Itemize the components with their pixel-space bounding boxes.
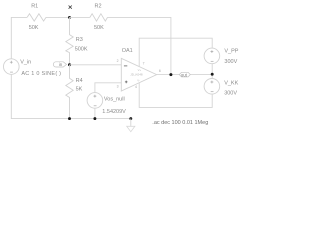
svg-text:50K: 50K [94, 25, 104, 31]
voltage source Vos_null [87, 93, 103, 109]
wire op-amp output to supplies column [157, 74, 213, 76]
svg-text:5K: 5K [76, 86, 83, 92]
svg-text:.ac dec 100 0.01 1Meg: .ac dec 100 0.01 1Meg [152, 120, 208, 126]
voltage source V_in [4, 59, 20, 75]
svg-text:300V: 300V [224, 91, 237, 97]
voltage source V_KK [204, 79, 220, 95]
svg-text:7: 7 [143, 62, 145, 66]
wire R1 to node A [46, 16, 70, 18]
svg-text:V_KK: V_KK [224, 81, 238, 87]
svg-text:300V: 300V [224, 59, 237, 65]
junction output node [169, 73, 172, 76]
wire op-amp V- pin to V_KK bottom [139, 83, 212, 108]
resistor R4 [66, 65, 73, 119]
svg-text:6: 6 [159, 69, 161, 73]
svg-text:Vos_null: Vos_null [104, 96, 125, 102]
svg-text:50K: 50K [29, 25, 39, 31]
junction R4 bottom [68, 117, 71, 120]
svg-text:1.54209V: 1.54209V [102, 109, 126, 115]
wire node A to R2 [70, 16, 90, 18]
wire Vos_null bottom to ground rail [94, 108, 96, 118]
svg-text:R3: R3 [76, 37, 83, 43]
svg-text:R2: R2 [95, 3, 102, 9]
junction Vos_null bottom [93, 117, 96, 120]
wire V_PP bottom to V_KK top [211, 64, 213, 79]
svg-text:3: 3 [117, 85, 119, 89]
voltage source V_PP [204, 48, 220, 64]
svg-text:V+: V+ [138, 68, 142, 72]
svg-text:V_in: V_in [20, 59, 31, 65]
svg-text:in: in [59, 62, 63, 67]
op-amp OA1 [121, 58, 156, 91]
resistor R3 [66, 17, 73, 64]
svg-text:V_PP: V_PP [224, 48, 238, 54]
svg-text:500K: 500K [75, 46, 88, 52]
marker x above node A [69, 6, 72, 9]
svg-text:R4: R4 [76, 78, 83, 84]
junction node A [68, 16, 71, 19]
wire left rail and top-left corner [11, 17, 27, 58]
svg-text:4: 4 [135, 85, 137, 89]
svg-text:JD_K048: JD_K048 [130, 72, 143, 76]
wire op-amp + input to Vos_null top [95, 83, 121, 93]
ground [127, 119, 135, 132]
wire feedback R2 to output node [108, 17, 171, 74]
resistor R1 [27, 14, 46, 21]
wire in node to op-amp inverting input [70, 64, 122, 66]
svg-text:2: 2 [117, 59, 119, 63]
junction node in [68, 63, 71, 66]
svg-text:R1: R1 [31, 3, 38, 9]
junction supplies mid node [211, 73, 214, 76]
wire op-amp V+ pin to V_PP top [139, 38, 212, 66]
svg-text:AC 1 0 SINE( ): AC 1 0 SINE( ) [21, 71, 61, 77]
wire V_in bottom to ground rail [11, 74, 131, 118]
node tag out [179, 72, 190, 77]
node tag in [53, 62, 66, 67]
resistor R2 [90, 14, 108, 21]
svg-text:V-: V- [137, 78, 140, 82]
svg-text:out: out [181, 72, 188, 77]
junction ground tap [129, 117, 132, 120]
svg-text:OA1: OA1 [122, 48, 133, 54]
